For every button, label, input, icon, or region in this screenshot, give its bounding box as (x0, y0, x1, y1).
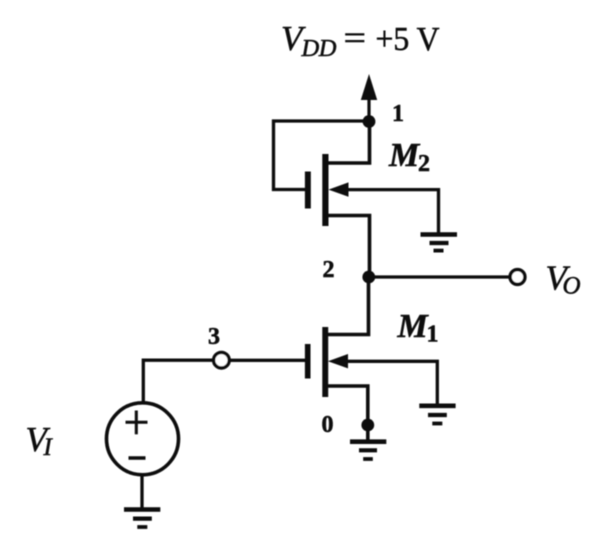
node 3 terminal open circle (214, 352, 230, 368)
transistor M2 channel bar (322, 154, 328, 226)
wire M1 source to node 0 and ground (328, 386, 368, 440)
svg-text:3: 3 (208, 324, 220, 350)
wire node 2 to output terminal (369, 275, 509, 278)
wire node 3 to VI source (143, 360, 212, 402)
svg-text:O: O (563, 273, 581, 300)
wire M2 gate feedback from node 1 to M2 gate (274, 121, 370, 190)
svg-text:M: M (397, 308, 430, 345)
label M2 (388, 137, 430, 177)
node 1 junction dot (363, 115, 376, 128)
svg-text:M: M (388, 137, 421, 174)
svg-text:0: 0 (322, 412, 334, 438)
label V_I (26, 420, 54, 461)
svg-text:=: = (344, 20, 367, 57)
svg-text:1: 1 (427, 322, 439, 348)
output terminal open circle (510, 270, 525, 285)
wire VI to ground (140, 475, 143, 509)
svg-text:I: I (43, 434, 54, 461)
svg-text:2: 2 (323, 257, 335, 283)
ground for M1 bulk (419, 406, 455, 424)
label M1 (397, 308, 439, 348)
transistor M1 channel bar (322, 327, 328, 397)
wire M2 source to node 2 (329, 216, 370, 278)
svg-text:DD: DD (301, 35, 337, 62)
transistor M2 bulk arrow (329, 182, 349, 196)
ground for VI (124, 510, 160, 528)
wire M1 gate lead from node 3 (231, 359, 306, 362)
transistor M2 gate bar (305, 172, 311, 209)
label VDD = +5 V (281, 19, 440, 62)
transistor M1 bulk arrow (328, 354, 348, 368)
svg-text:1: 1 (392, 101, 404, 127)
svg-text:2: 2 (418, 151, 430, 177)
ground for M2 bulk (421, 235, 458, 251)
wire M1 bulk to ground (346, 361, 438, 404)
wire M2 drain to node 1 (329, 122, 370, 164)
voltage source VI (107, 403, 179, 475)
wire M2 bulk to ground (346, 190, 439, 233)
node 2 junction dot (362, 271, 375, 284)
label V_O (546, 259, 581, 300)
power supply arrow VDD (361, 74, 377, 122)
node 0 junction dot (361, 419, 374, 432)
ground for node 0 (350, 442, 386, 459)
transistor M1 gate bar (305, 344, 311, 379)
svg-text:+5 V: +5 V (376, 21, 440, 58)
wire node 2 to M1 drain (328, 277, 369, 335)
